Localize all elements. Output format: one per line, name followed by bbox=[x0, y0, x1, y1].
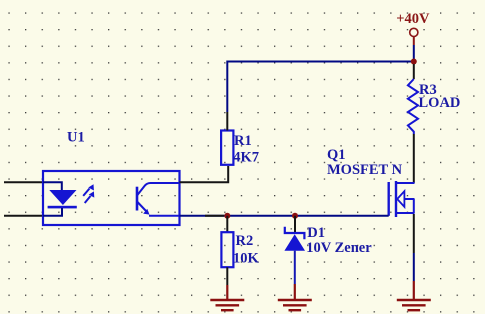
resistor R3 zigzag bbox=[408, 79, 418, 134]
zener D1 cathode bar with ticks bbox=[285, 227, 305, 239]
junction at R2 bbox=[224, 213, 230, 219]
svg-text:Q1: Q1 bbox=[327, 147, 346, 163]
mosfet Q1 channel bar bbox=[395, 181, 397, 217]
mosfet Q1 drain lead bbox=[396, 182, 415, 184]
U1 phototransistor base bar bbox=[136, 187, 139, 211]
Q1 ground stem bbox=[413, 281, 415, 300]
D1 label bbox=[307, 225, 325, 241]
svg-text:U1: U1 bbox=[67, 130, 85, 146]
R3 label bbox=[419, 82, 437, 98]
R2 label bbox=[236, 233, 254, 249]
D1 top pin (black) bbox=[294, 216, 296, 233]
Q1 value MOSFET N bbox=[327, 162, 403, 178]
U1 LED triangle bbox=[49, 190, 76, 205]
U1 LED cathode routing bbox=[43, 208, 62, 216]
svg-text:10K: 10K bbox=[233, 251, 260, 267]
R3 value LOAD bbox=[419, 95, 461, 111]
wire emitter/gate net (navy) bbox=[180, 215, 389, 217]
R2 ground stem bbox=[226, 285, 228, 300]
svg-text:4K7: 4K7 bbox=[233, 149, 259, 165]
D1 bottom pin (blue) bbox=[294, 251, 296, 284]
resistor R2 body bbox=[221, 232, 233, 267]
D1 value 10V Zener bbox=[306, 240, 372, 256]
U1 phototransistor emitter with arrow bbox=[137, 202, 180, 216]
Q1 label bbox=[327, 147, 346, 163]
R2 top pin (black) bbox=[226, 216, 228, 232]
wire segment black near R2 junction bbox=[205, 215, 224, 217]
optocoupler U1 body bbox=[43, 171, 180, 225]
U1 LED anode routing bbox=[43, 182, 62, 190]
junction at +40V rail bbox=[411, 59, 417, 65]
svg-text:10V Zener: 10V Zener bbox=[306, 240, 372, 256]
power port stem bbox=[413, 37, 415, 46]
power port +40V circle bbox=[410, 28, 418, 36]
mosfet Q1 gate bar bbox=[388, 182, 390, 216]
R1 label bbox=[234, 133, 252, 149]
svg-text:LOAD: LOAD bbox=[419, 95, 461, 111]
svg-text:D1: D1 bbox=[307, 225, 325, 241]
wire R1 to +40V rail (navy) bbox=[227, 62, 413, 113]
R2 bottom pin (black) bbox=[226, 267, 228, 285]
zener D1 triangle bbox=[284, 234, 305, 251]
svg-text:R1: R1 bbox=[234, 133, 252, 149]
mosfet Q1 body lead bbox=[405, 198, 415, 200]
ground under Q1 source bbox=[397, 300, 431, 310]
wire input bottom (pin 2 of U1) bbox=[4, 215, 44, 217]
R2 value 10K bbox=[233, 251, 260, 267]
+40V label bbox=[396, 11, 430, 27]
Q1 source wire (black) bbox=[413, 214, 415, 253]
wire collector to R1 (black) bbox=[180, 166, 229, 182]
svg-text:R2: R2 bbox=[236, 233, 254, 249]
resistor R1 body bbox=[221, 131, 233, 165]
wire R3 to Q1 drain (black) bbox=[413, 134, 415, 183]
wire input top (pin 1 of U1) bbox=[4, 181, 44, 183]
mosfet Q1 body-source vertical bbox=[413, 199, 415, 213]
junction at D1 bbox=[292, 213, 298, 219]
U1 phototransistor collector bbox=[137, 183, 180, 196]
svg-text:+40V: +40V bbox=[396, 11, 430, 27]
R3 top pin (black) bbox=[413, 64, 415, 79]
mosfet Q1 source lead bbox=[396, 212, 415, 214]
Q1 source wire (navy) bbox=[413, 253, 415, 281]
U1 LED cathode bar bbox=[48, 206, 77, 209]
ground under R2 bbox=[210, 300, 244, 310]
U1 light arrow lower bbox=[85, 191, 95, 203]
mosfet Q1 substrate arrow bbox=[397, 191, 404, 207]
R1 top pin (black) bbox=[226, 112, 228, 131]
U1 label bbox=[67, 130, 85, 146]
U1 light arrow upper bbox=[83, 184, 94, 196]
svg-text:MOSFET N: MOSFET N bbox=[327, 162, 403, 178]
R1 value 4K7 bbox=[233, 149, 259, 165]
ground under D1 bbox=[278, 300, 312, 310]
wire power to junction (navy) bbox=[413, 45, 415, 62]
D1 ground stem bbox=[294, 284, 296, 300]
